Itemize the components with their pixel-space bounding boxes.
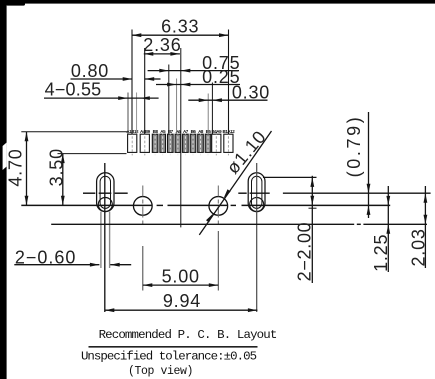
border left bar — [0, 0, 7, 379]
extension line drawing center vertical — [180, 48, 182, 227]
line D — [51, 223, 427, 225]
dim 6.33 line — [132, 34, 229, 36]
dim 2.36 arrow left — [144, 52, 154, 56]
svg-text:1.25: 1.25 — [371, 234, 391, 272]
svg-text:4.70: 4.70 — [6, 148, 26, 186]
dim 4-0.55 line — [44, 97, 159, 99]
svg-text:A5: A5 — [160, 129, 166, 134]
note underline — [89, 346, 258, 348]
extension line 0.30 left — [207, 94, 209, 135]
svg-text:2.36: 2.36 — [143, 35, 181, 55]
pad B1A12 (pin pad 12) — [223, 129, 236, 156]
dim 0.75 line — [148, 70, 239, 72]
dim 2-0.60 arrow right — [110, 263, 120, 267]
dim 0.80 arrow right — [145, 77, 155, 81]
svg-text:5.00: 5.00 — [162, 266, 200, 286]
dim 6.33 arrow left — [132, 33, 142, 37]
dim (0.79) arrow down — [367, 184, 371, 194]
svg-text:A7: A7 — [183, 129, 189, 134]
dim 1.25 arrow down — [386, 196, 390, 206]
dim 4.70 line — [26, 132, 28, 206]
dim 5.00 ext left — [142, 246, 144, 291]
extension line pad2 center (0.80 right / 2.36 left) — [144, 48, 146, 134]
centerline circle1 vertical — [142, 186, 144, 227]
dim 0.30 arrow left — [199, 98, 209, 102]
leader arrow upper — [224, 189, 231, 198]
centerline circle2 vertical — [217, 186, 219, 227]
svg-text:2−2.00: 2−2.00 — [295, 222, 315, 282]
slot right hole circle — [250, 198, 264, 212]
pad A7 (pin pad 7) — [183, 129, 189, 156]
dim 1.25 arrow up — [386, 224, 390, 234]
dim 0.80 tail right — [145, 78, 161, 80]
dim 5.00 arrow right — [209, 283, 219, 287]
line C (hole row centerline) — [21, 204, 390, 206]
dim 5.00 ext right — [217, 231, 219, 291]
dim 0.80 arrow left — [123, 77, 133, 81]
extension line 0.30 right (pad11 left) — [211, 83, 213, 135]
dim 0.30 line — [188, 99, 267, 101]
slot left outer — [97, 173, 114, 212]
svg-text:A4B9: A4B9 — [140, 129, 151, 134]
svg-text:B8: B8 — [153, 129, 159, 134]
svg-text:9.94: 9.94 — [163, 291, 201, 311]
svg-text:0.30: 0.30 — [232, 82, 270, 102]
dim dia 1.10 leader line — [199, 131, 271, 235]
dim 2.03 arrow bottom — [424, 215, 428, 225]
dim 0.30 arrow right — [212, 98, 222, 102]
svg-text:Recommended P. C. B. Layout: Recommended P. C. B. Layout — [99, 328, 277, 342]
dim 0.80 line — [71, 78, 133, 80]
extension line bottom of pads (3.50) — [58, 153, 127, 155]
border top-left bump — [6, 0, 25, 6]
dim 9.94 arrow left — [105, 308, 115, 312]
slot right inner — [252, 176, 262, 208]
svg-text:B4A9: B4A9 — [211, 129, 222, 134]
dim 5.00 line — [143, 284, 219, 286]
leader arrow lower — [206, 214, 213, 223]
pad B8 (pin pad 3) — [152, 129, 158, 156]
svg-text:0.80: 0.80 — [71, 61, 109, 81]
svg-text:4−0.55: 4−0.55 — [45, 79, 102, 99]
dim 2-2.00 arrow bottom — [310, 196, 314, 206]
dim 5.00 arrow left — [143, 283, 153, 287]
dim 0.25 line — [156, 84, 240, 86]
pad A5 (pin pad 4) — [160, 129, 166, 156]
pad A4B9 (pin pad 2) — [140, 129, 151, 156]
pad A8 (pin pad 9) — [198, 129, 204, 156]
dim 4-0.55 arrow left — [118, 96, 128, 100]
line A (slot inner top extension) — [263, 176, 317, 178]
extension line pad6 center (0.25 left) — [176, 79, 178, 135]
dim 2.36 line — [144, 53, 180, 55]
dim 2-0.60 line left — [14, 264, 99, 266]
svg-text:(Top view): (Top view) — [128, 365, 193, 378]
extension line pad1 center (6.33/0.80 left) — [131, 30, 133, 135]
dim (0.79) arrow up — [367, 205, 371, 215]
pad A1B12 (pin pad 1) — [126, 129, 139, 156]
dim 3.50 arrow top — [61, 154, 65, 164]
extension line pad12 center (6.33 right) — [228, 30, 230, 135]
pad B7 (pin pad 5) — [168, 129, 174, 156]
svg-text:6.33: 6.33 — [161, 16, 199, 36]
svg-text:(0.79): (0.79) — [344, 115, 364, 178]
dim 3.50 arrow bottom — [61, 196, 65, 206]
dim 9.94 arrow right — [248, 308, 258, 312]
svg-text:A8: A8 — [198, 129, 204, 134]
pad B5 (pin pad 10) — [205, 129, 211, 156]
extension line pad1 right edge — [136, 93, 138, 135]
svg-text:B6: B6 — [191, 129, 197, 134]
dim 4.70 arrow top — [25, 132, 29, 142]
centerline right slot vertical — [256, 163, 258, 312]
dim 4.70 arrow bottom — [25, 196, 29, 206]
dim 2-0.60 arrow left — [90, 263, 100, 267]
left slot leg line 2 — [109, 212, 111, 268]
slot left hole circle — [98, 198, 112, 212]
dim 0.75 arrow left — [159, 69, 169, 73]
dim 2-2.00 bottom tick — [309, 207, 317, 209]
centerline left slot vertical — [104, 163, 106, 312]
slot left inner — [100, 176, 110, 208]
dim 1.25 line — [387, 186, 389, 272]
dim 3.50 line — [62, 154, 64, 206]
pad B6 (pin pad 8) — [190, 129, 196, 156]
svg-text:2.03: 2.03 — [409, 228, 429, 266]
dim 2.03 line — [424, 186, 426, 268]
dim 2.03 arrow top — [424, 193, 428, 203]
svg-text:3.50: 3.50 — [46, 148, 66, 186]
dim 2-2.00 arrow top — [310, 177, 314, 187]
dim 4-0.55 arrow right — [140, 96, 150, 100]
dim 2.36 arrow right — [170, 52, 180, 56]
dim 0.25 arrow left — [167, 83, 177, 87]
dim 2-2.00 line — [311, 176, 313, 283]
dim (0.79) line — [368, 112, 370, 218]
extension line 0.75 left — [168, 65, 170, 135]
border top bar — [0, 0, 435, 4]
border left notch — [3, 143, 7, 171]
extension line pad1 left edge (4-0.55) — [127, 93, 129, 135]
hole circle 2 — [209, 197, 228, 216]
line B (slot horizontal centerline) — [83, 192, 431, 194]
extension line top of pads (4.70) — [21, 131, 127, 133]
dim 2-0.60 tail right — [110, 264, 131, 266]
svg-text:Unspecified tolerance:±0.05: Unspecified tolerance:±0.05 — [81, 350, 257, 364]
dim 0.25 arrow right — [181, 83, 191, 87]
pad B4A9 (pin pad 11) — [211, 129, 222, 156]
dim 0.75 arrow right — [181, 69, 191, 73]
pad A6 (pin pad 6) — [175, 129, 181, 156]
dim 9.94 line — [105, 309, 258, 311]
dim 6.33 arrow right — [219, 33, 229, 37]
left slot leg line 1 — [100, 212, 102, 268]
hole circle 1 — [133, 197, 152, 216]
slot right outer — [248, 173, 265, 212]
